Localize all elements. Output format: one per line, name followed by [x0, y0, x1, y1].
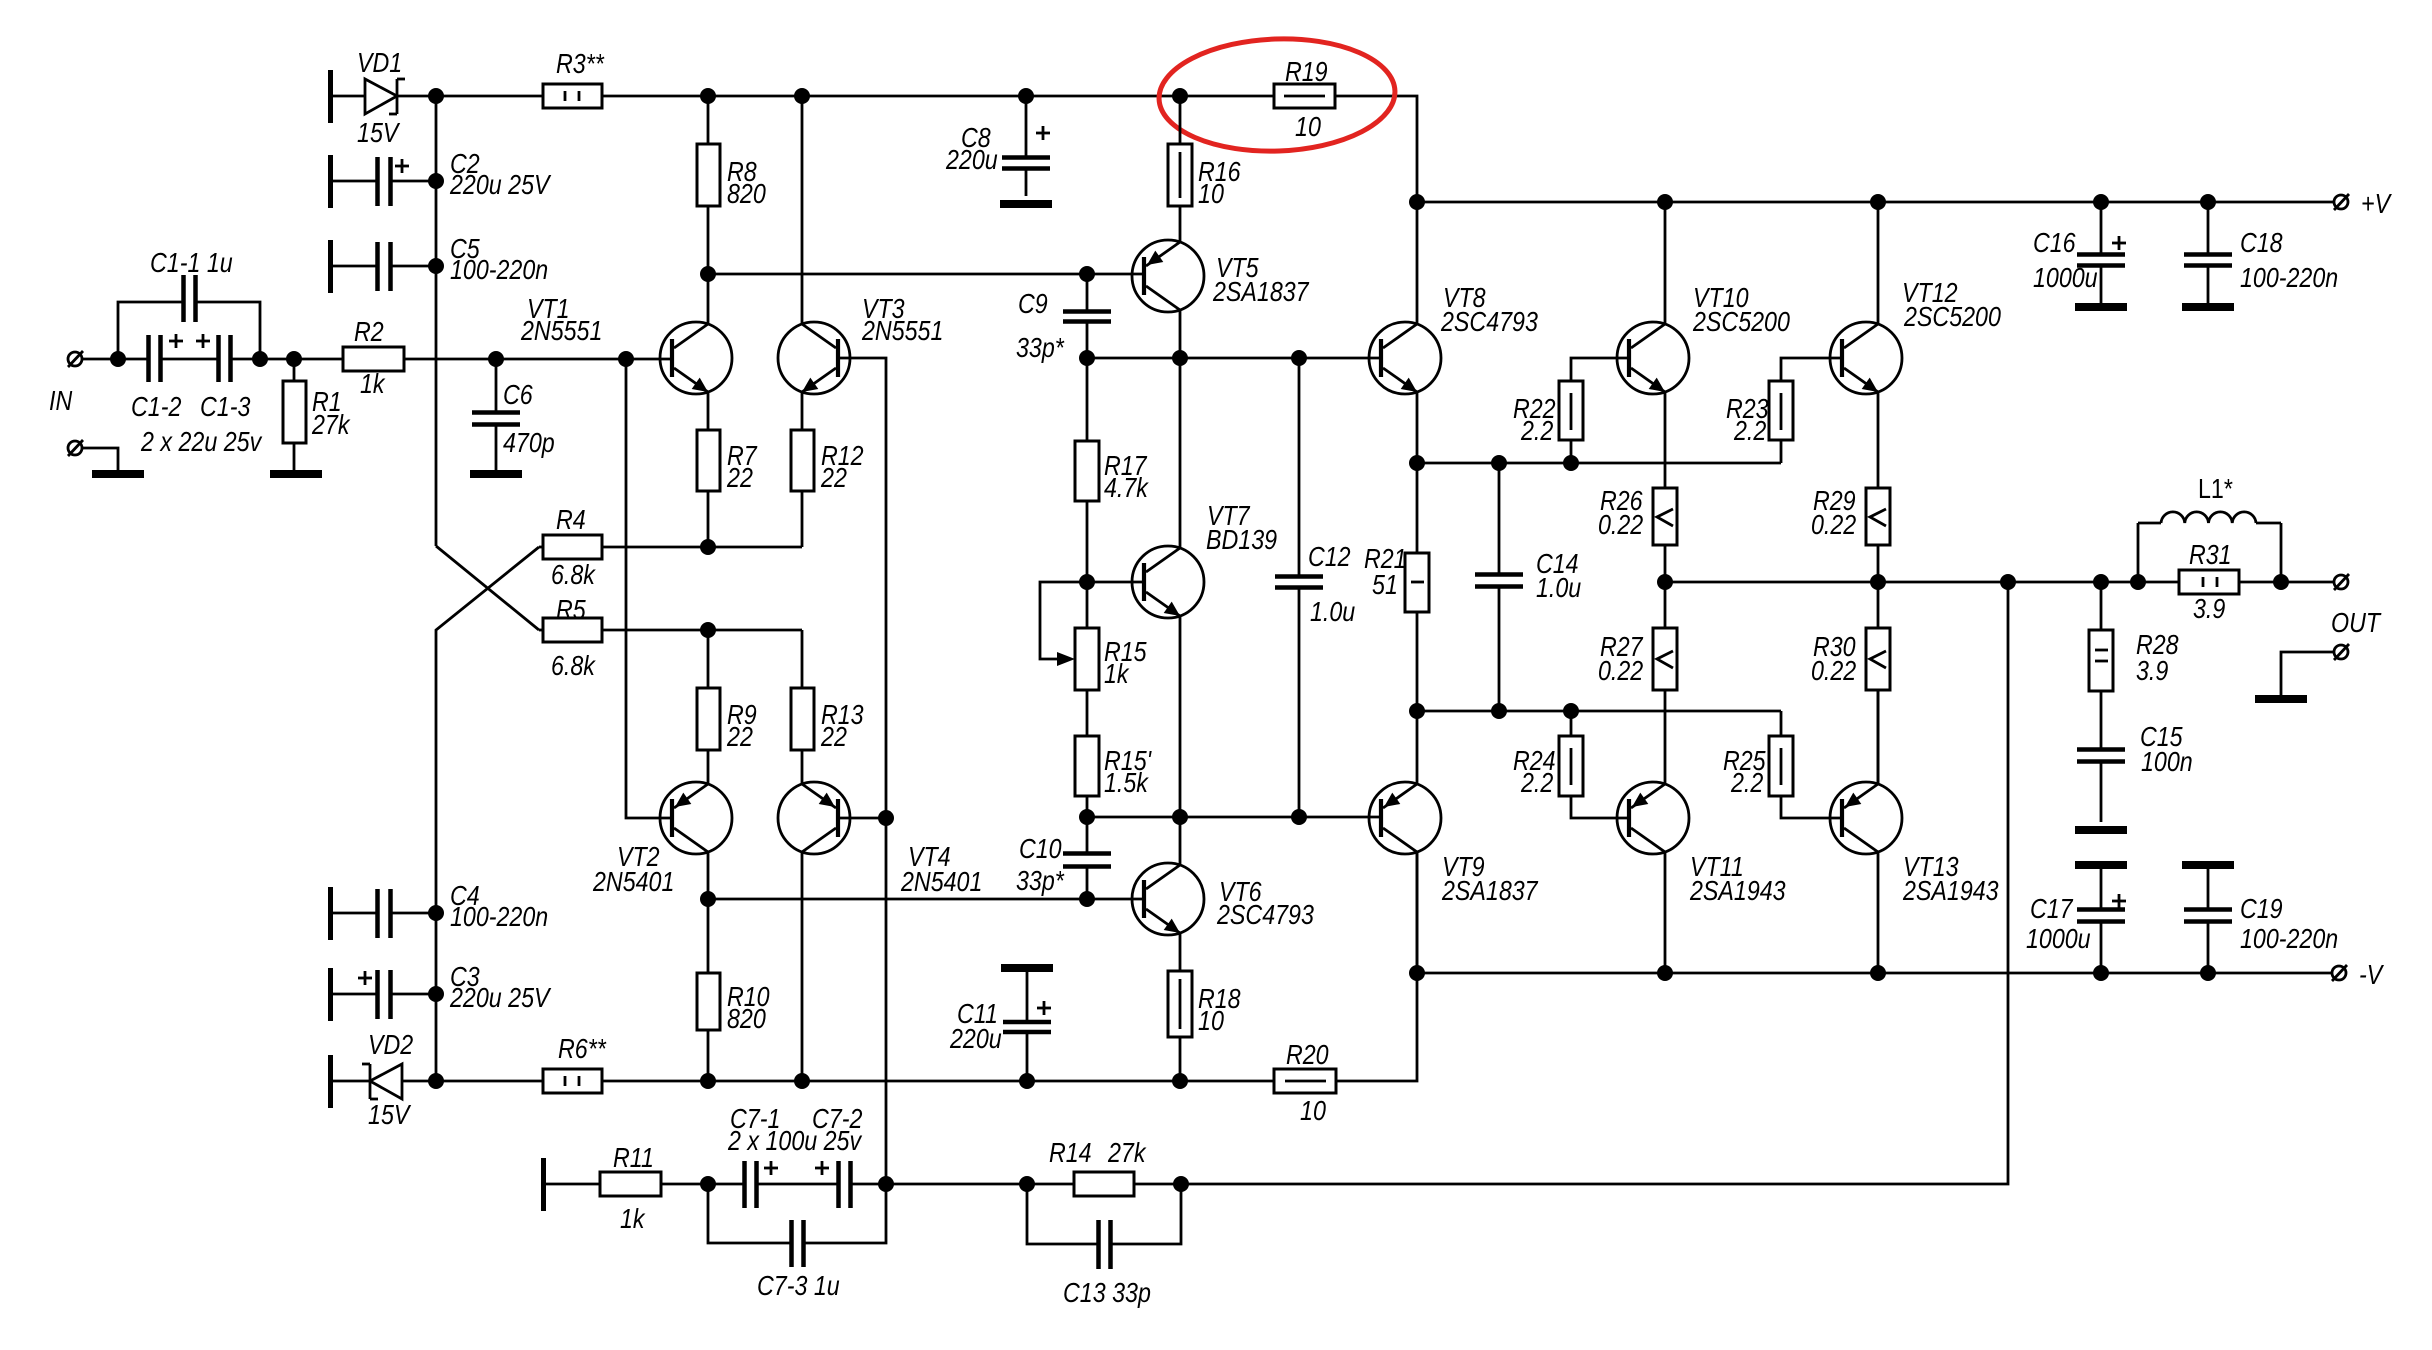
svg-text:R19: R19: [1285, 56, 1328, 87]
capacitor C1-3: [196, 334, 294, 382]
transistor VT11 (PNP): [1617, 782, 1689, 973]
svg-text:R3**: R3**: [556, 48, 605, 79]
svg-text:VD2: VD2: [368, 1029, 414, 1060]
transistor VT10: [1617, 202, 1689, 488]
capacitor C9: [1063, 274, 1111, 358]
node: R11/C7-1 junction: [700, 1176, 716, 1192]
resistor R7: [697, 430, 720, 491]
svg-text:+V: +V: [2361, 188, 2392, 219]
svg-text:R14: R14: [1049, 1137, 1092, 1168]
transistor VT1: [660, 274, 732, 430]
resistor R30: [1866, 582, 1890, 784]
resistor R1: [283, 359, 306, 470]
wire: [436, 95, 543, 98]
resistor R27: [1653, 582, 1677, 784]
terminal stub for C5: [328, 240, 333, 293]
transistor VT4 (PNP mirrored): [778, 750, 886, 1081]
capacitor C7-3 (bypass): [708, 1184, 886, 1267]
svg-text:2SA1837: 2SA1837: [1212, 276, 1310, 307]
resistor R31: [2179, 570, 2334, 594]
capacitor C17: [2075, 861, 2127, 973]
node: VT3/VT4 base junction: [878, 810, 894, 826]
resistor R17: [1075, 358, 1099, 628]
svg-text:R6**: R6**: [558, 1033, 607, 1064]
svg-text:2SA1943: 2SA1943: [1902, 875, 1999, 906]
wire VD1 column: [435, 96, 438, 546]
svg-text:100-220n: 100-220n: [2240, 262, 2338, 293]
resistor R18: [1168, 971, 1192, 1081]
svg-text:470p: 470p: [503, 427, 555, 458]
resistor R4: [539, 535, 802, 559]
resistor R12: [791, 430, 814, 491]
capacitor C14: [1475, 463, 1523, 711]
transistor VT9 (PNP): [1369, 711, 1441, 973]
svg-text:C16: C16: [2033, 227, 2076, 258]
svg-text:2N5551: 2N5551: [520, 315, 602, 346]
driver base rail (y=817): [1087, 816, 1381, 819]
svg-text:R5: R5: [556, 594, 586, 625]
svg-text:10: 10: [1198, 178, 1224, 209]
wire input node to VT1/VT2 bases: [496, 358, 672, 361]
terminal IN ground: [68, 440, 118, 470]
svg-text:1.0u: 1.0u: [1536, 572, 1582, 603]
svg-text:100-220n: 100-220n: [2240, 923, 2338, 954]
wire +V rail: [1417, 201, 2333, 204]
resistor R21: [1405, 463, 1429, 711]
junction dots on VT9 emitter rail: [1409, 703, 1425, 719]
inductor L1*: [2138, 512, 2281, 582]
wire: [436, 1080, 543, 1083]
wire: [1335, 96, 1417, 202]
svg-text:1000u: 1000u: [2026, 923, 2091, 954]
resistor R3**: [543, 84, 602, 108]
svg-text:1k: 1k: [1104, 658, 1130, 689]
terminal stub for VD2: [328, 1055, 333, 1108]
svg-text:820: 820: [727, 1003, 766, 1034]
svg-text:R4: R4: [556, 504, 586, 535]
svg-text:R20: R20: [1286, 1039, 1329, 1070]
potentiometer R15: [1040, 582, 1099, 690]
svg-text:220u 25V: 220u 25V: [449, 169, 551, 200]
svg-text:R31: R31: [2189, 539, 2232, 570]
transistor VT2 (PNP): [660, 750, 732, 899]
svg-text:51: 51: [1372, 569, 1398, 600]
terminal stub for C4: [328, 887, 333, 940]
node line VT8 base rail: [1087, 357, 1381, 360]
wire base column down to feedback: [885, 818, 888, 1184]
svg-text:33p*: 33p*: [1016, 865, 1065, 896]
resistor R24: [1559, 711, 1629, 818]
resistor R13: [791, 688, 814, 750]
wire R20 to -V: [1336, 851, 1417, 1081]
terminal stub for R11: [541, 1158, 546, 1211]
capacitor C5: [333, 242, 436, 291]
svg-text:2.2: 2.2: [1733, 415, 1766, 446]
svg-text:22: 22: [726, 462, 753, 493]
junction dots on top rail: [700, 88, 716, 104]
svg-text:2 x 22u 25v: 2 x 22u 25v: [140, 426, 263, 457]
svg-text:BD139: BD139: [1206, 524, 1277, 555]
capacitor C7-2: [815, 1161, 1074, 1208]
svg-text:C1-1 1u: C1-1 1u: [150, 247, 233, 278]
terminal +V: [2334, 194, 2349, 210]
svg-text:2N5401: 2N5401: [592, 866, 674, 897]
terminal OUT: [2334, 574, 2349, 590]
wire output rail: [1665, 581, 2179, 584]
transistor VT3 (mirrored): [778, 96, 886, 818]
wire: [435, 913, 438, 1081]
svg-text:0.22: 0.22: [1811, 655, 1857, 686]
capacitor C13 (bypass): [1027, 1184, 1181, 1269]
resistor R2: [294, 347, 496, 371]
resistor R29: [1866, 488, 1890, 582]
resistor R8: [697, 96, 720, 274]
svg-text:3.9: 3.9: [2193, 593, 2225, 624]
diode VD1: [333, 79, 436, 114]
svg-text:27k: 27k: [1107, 1137, 1147, 1168]
svg-text:R11: R11: [613, 1142, 654, 1173]
ground under C15: [2075, 826, 2127, 834]
svg-text:IN: IN: [49, 385, 73, 416]
svg-text:C7-3 1u: C7-3 1u: [757, 1270, 840, 1301]
resistor R6**: [543, 1069, 602, 1093]
capacitor C3: [333, 970, 436, 1019]
svg-text:820: 820: [727, 178, 766, 209]
svg-text:6.8k: 6.8k: [551, 559, 597, 590]
svg-text:22: 22: [820, 721, 847, 752]
svg-text:C10: C10: [1019, 833, 1062, 864]
red marker ellipse: [1157, 35, 1397, 155]
capacitor C4: [333, 889, 436, 938]
svg-text:33p*: 33p*: [1016, 332, 1065, 363]
svg-text:0.22: 0.22: [1598, 509, 1644, 540]
transistor VT7: [1087, 358, 1204, 817]
svg-text:2SA1837: 2SA1837: [1441, 875, 1539, 906]
resistor R22: [1559, 358, 1629, 463]
emitter rail of VT9 (y=711): [1417, 710, 1781, 713]
capacitor C1-2: [149, 334, 219, 382]
node B: R8/VT1 collector/VT5 base line: [700, 266, 716, 282]
transistor VT5 (PNP): [1132, 240, 1204, 358]
resistor R11: [546, 1172, 744, 1196]
junction dots C9/VT5-VT7/C12 on VT8 base rail: [1079, 350, 1095, 366]
svg-text:1.0u: 1.0u: [1310, 596, 1356, 627]
terminal stub for C2: [328, 155, 333, 208]
junction dots R15'/VT7-VT6/C12 on driver base rail: [1079, 809, 1095, 825]
svg-text:220u: 220u: [949, 1023, 1002, 1054]
svg-text:C19: C19: [2240, 893, 2283, 924]
wire cross lower: [436, 547, 539, 913]
svg-text:0.22: 0.22: [1598, 655, 1644, 686]
svg-text:1k: 1k: [360, 368, 386, 399]
resistor R26: [1653, 488, 1677, 582]
resistor R20: [1274, 1069, 1336, 1093]
feedback wire from output: [1181, 582, 2008, 1184]
wire to VT5 base: [708, 273, 1144, 276]
svg-text:15V: 15V: [368, 1099, 411, 1130]
resistor R15': [1075, 690, 1099, 817]
svg-text:VD1: VD1: [357, 47, 402, 78]
resistor R19: [1274, 84, 1335, 108]
resistor R28: [2089, 582, 2113, 691]
svg-text:1.5k: 1.5k: [1104, 767, 1150, 798]
resistor R25: [1769, 711, 1842, 818]
capacitor C7-1: [745, 1161, 839, 1208]
svg-text:220u: 220u: [945, 144, 998, 175]
node A: VD1/C2/C5 junction: [428, 88, 444, 104]
svg-text:10: 10: [1198, 1005, 1224, 1036]
svg-text:3.9: 3.9: [2136, 655, 2168, 686]
svg-text:220u 25V: 220u 25V: [449, 982, 551, 1013]
wire: [602, 1080, 1274, 1083]
svg-text:1000u: 1000u: [2033, 262, 2098, 293]
svg-text:1k: 1k: [620, 1203, 646, 1234]
terminal OUT ground side: [2281, 644, 2349, 695]
resistor R16: [1168, 96, 1192, 242]
svg-text:C9: C9: [1018, 288, 1048, 319]
svg-text:C1-3: C1-3: [200, 391, 251, 422]
svg-text:C1-2: C1-2: [131, 391, 182, 422]
transistor VT6: [1132, 817, 1204, 971]
junction dots on VT8 emitter rail: [1409, 455, 1425, 471]
svg-text:2SC5200: 2SC5200: [1692, 306, 1790, 337]
svg-text:27k: 27k: [311, 409, 351, 440]
capacitor C11: [1001, 964, 1053, 1081]
svg-text:2SA1943: 2SA1943: [1689, 875, 1786, 906]
wire: [82, 358, 148, 361]
capacitor C1-1 (bridge): [118, 275, 260, 359]
svg-text:22: 22: [726, 721, 753, 752]
wire R12 bottom stem: [801, 491, 804, 547]
resistor R14: [1074, 1172, 1181, 1196]
svg-text:22: 22: [820, 462, 847, 493]
junction dots on output rail: [1657, 574, 1673, 590]
wire R7 bottom stem: [707, 491, 710, 547]
wire R9 top stem: [707, 630, 710, 688]
transistor VT8: [1369, 202, 1441, 463]
svg-text:2.2: 2.2: [1520, 415, 1553, 446]
transistor VT12: [1830, 202, 1902, 488]
capacitor C8: [1002, 96, 1050, 196]
ground under C6: [470, 470, 522, 478]
ground at input: [92, 470, 144, 478]
svg-text:2SC4793: 2SC4793: [1216, 899, 1314, 930]
wire R13 top stem: [801, 630, 804, 688]
svg-text:100-220n: 100-220n: [450, 901, 548, 932]
wire cross upper: [436, 546, 539, 630]
svg-text:L1*: L1*: [2198, 473, 2233, 504]
svg-text:4.7k: 4.7k: [1104, 472, 1150, 503]
capacitor C10: [1063, 817, 1111, 899]
wire: [602, 95, 1274, 98]
ground at OUT: [2255, 695, 2307, 703]
node VT7 base: [1079, 574, 1095, 590]
resistor R5: [539, 618, 802, 642]
svg-text:C13 33p: C13 33p: [1063, 1277, 1151, 1308]
terminal -V: [2332, 965, 2347, 981]
wire -V rail: [1417, 972, 2332, 975]
wire VT1/VT2 base column: [626, 359, 672, 818]
svg-text:10: 10: [1295, 111, 1321, 142]
svg-text:2.2: 2.2: [1520, 767, 1553, 798]
terminal stub for VD1: [328, 70, 333, 123]
svg-text:2SC4793: 2SC4793: [1440, 306, 1538, 337]
capacitor C16: [2077, 202, 2126, 303]
svg-text:-V: -V: [2359, 959, 2384, 990]
junction dots on +V rail: [1409, 194, 1425, 210]
transistor VT13 (PNP): [1830, 690, 1902, 973]
svg-text:C12: C12: [1308, 541, 1351, 572]
capacitor C2: [333, 157, 436, 206]
emitter rail of VT8 (y=463): [1417, 462, 1781, 465]
capacitor C12: [1275, 358, 1323, 817]
svg-text:2.2: 2.2: [1730, 767, 1763, 798]
svg-text:C6: C6: [503, 379, 533, 410]
capacitor C18: [2184, 202, 2232, 303]
svg-text:R2: R2: [354, 316, 384, 347]
terminal stub for C3: [328, 968, 333, 1021]
resistor R10: [697, 899, 720, 1081]
ground under R1: [270, 470, 322, 478]
svg-text:100n: 100n: [2141, 746, 2193, 777]
svg-text:C18: C18: [2240, 227, 2283, 258]
svg-text:OUT: OUT: [2331, 607, 2382, 638]
capacitor C19: [2182, 861, 2234, 973]
wire lower mirror line: [708, 898, 1144, 901]
svg-text:2N5551: 2N5551: [861, 315, 943, 346]
svg-text:6.8k: 6.8k: [551, 650, 597, 681]
resistor R23: [1769, 358, 1842, 463]
capacitor C15: [2077, 691, 2125, 822]
svg-text:15V: 15V: [357, 117, 400, 148]
terminal IN: [68, 351, 83, 367]
resistor R9: [697, 688, 720, 750]
svg-text:2 x 100u 25v: 2 x 100u 25v: [727, 1125, 863, 1156]
diode VD2: [333, 1064, 436, 1099]
svg-text:2SC5200: 2SC5200: [1903, 301, 2001, 332]
junction dots on lower bias rail: [700, 1073, 716, 1089]
svg-text:10: 10: [1300, 1095, 1326, 1126]
junction dots on -V rail: [1409, 965, 1425, 981]
svg-text:100-220n: 100-220n: [450, 254, 548, 285]
svg-text:2N5401: 2N5401: [900, 866, 982, 897]
svg-text:C17: C17: [2030, 893, 2074, 924]
node: VT2 collector: [700, 891, 716, 907]
svg-text:0.22: 0.22: [1811, 509, 1857, 540]
capacitor C6: [488, 351, 504, 367]
